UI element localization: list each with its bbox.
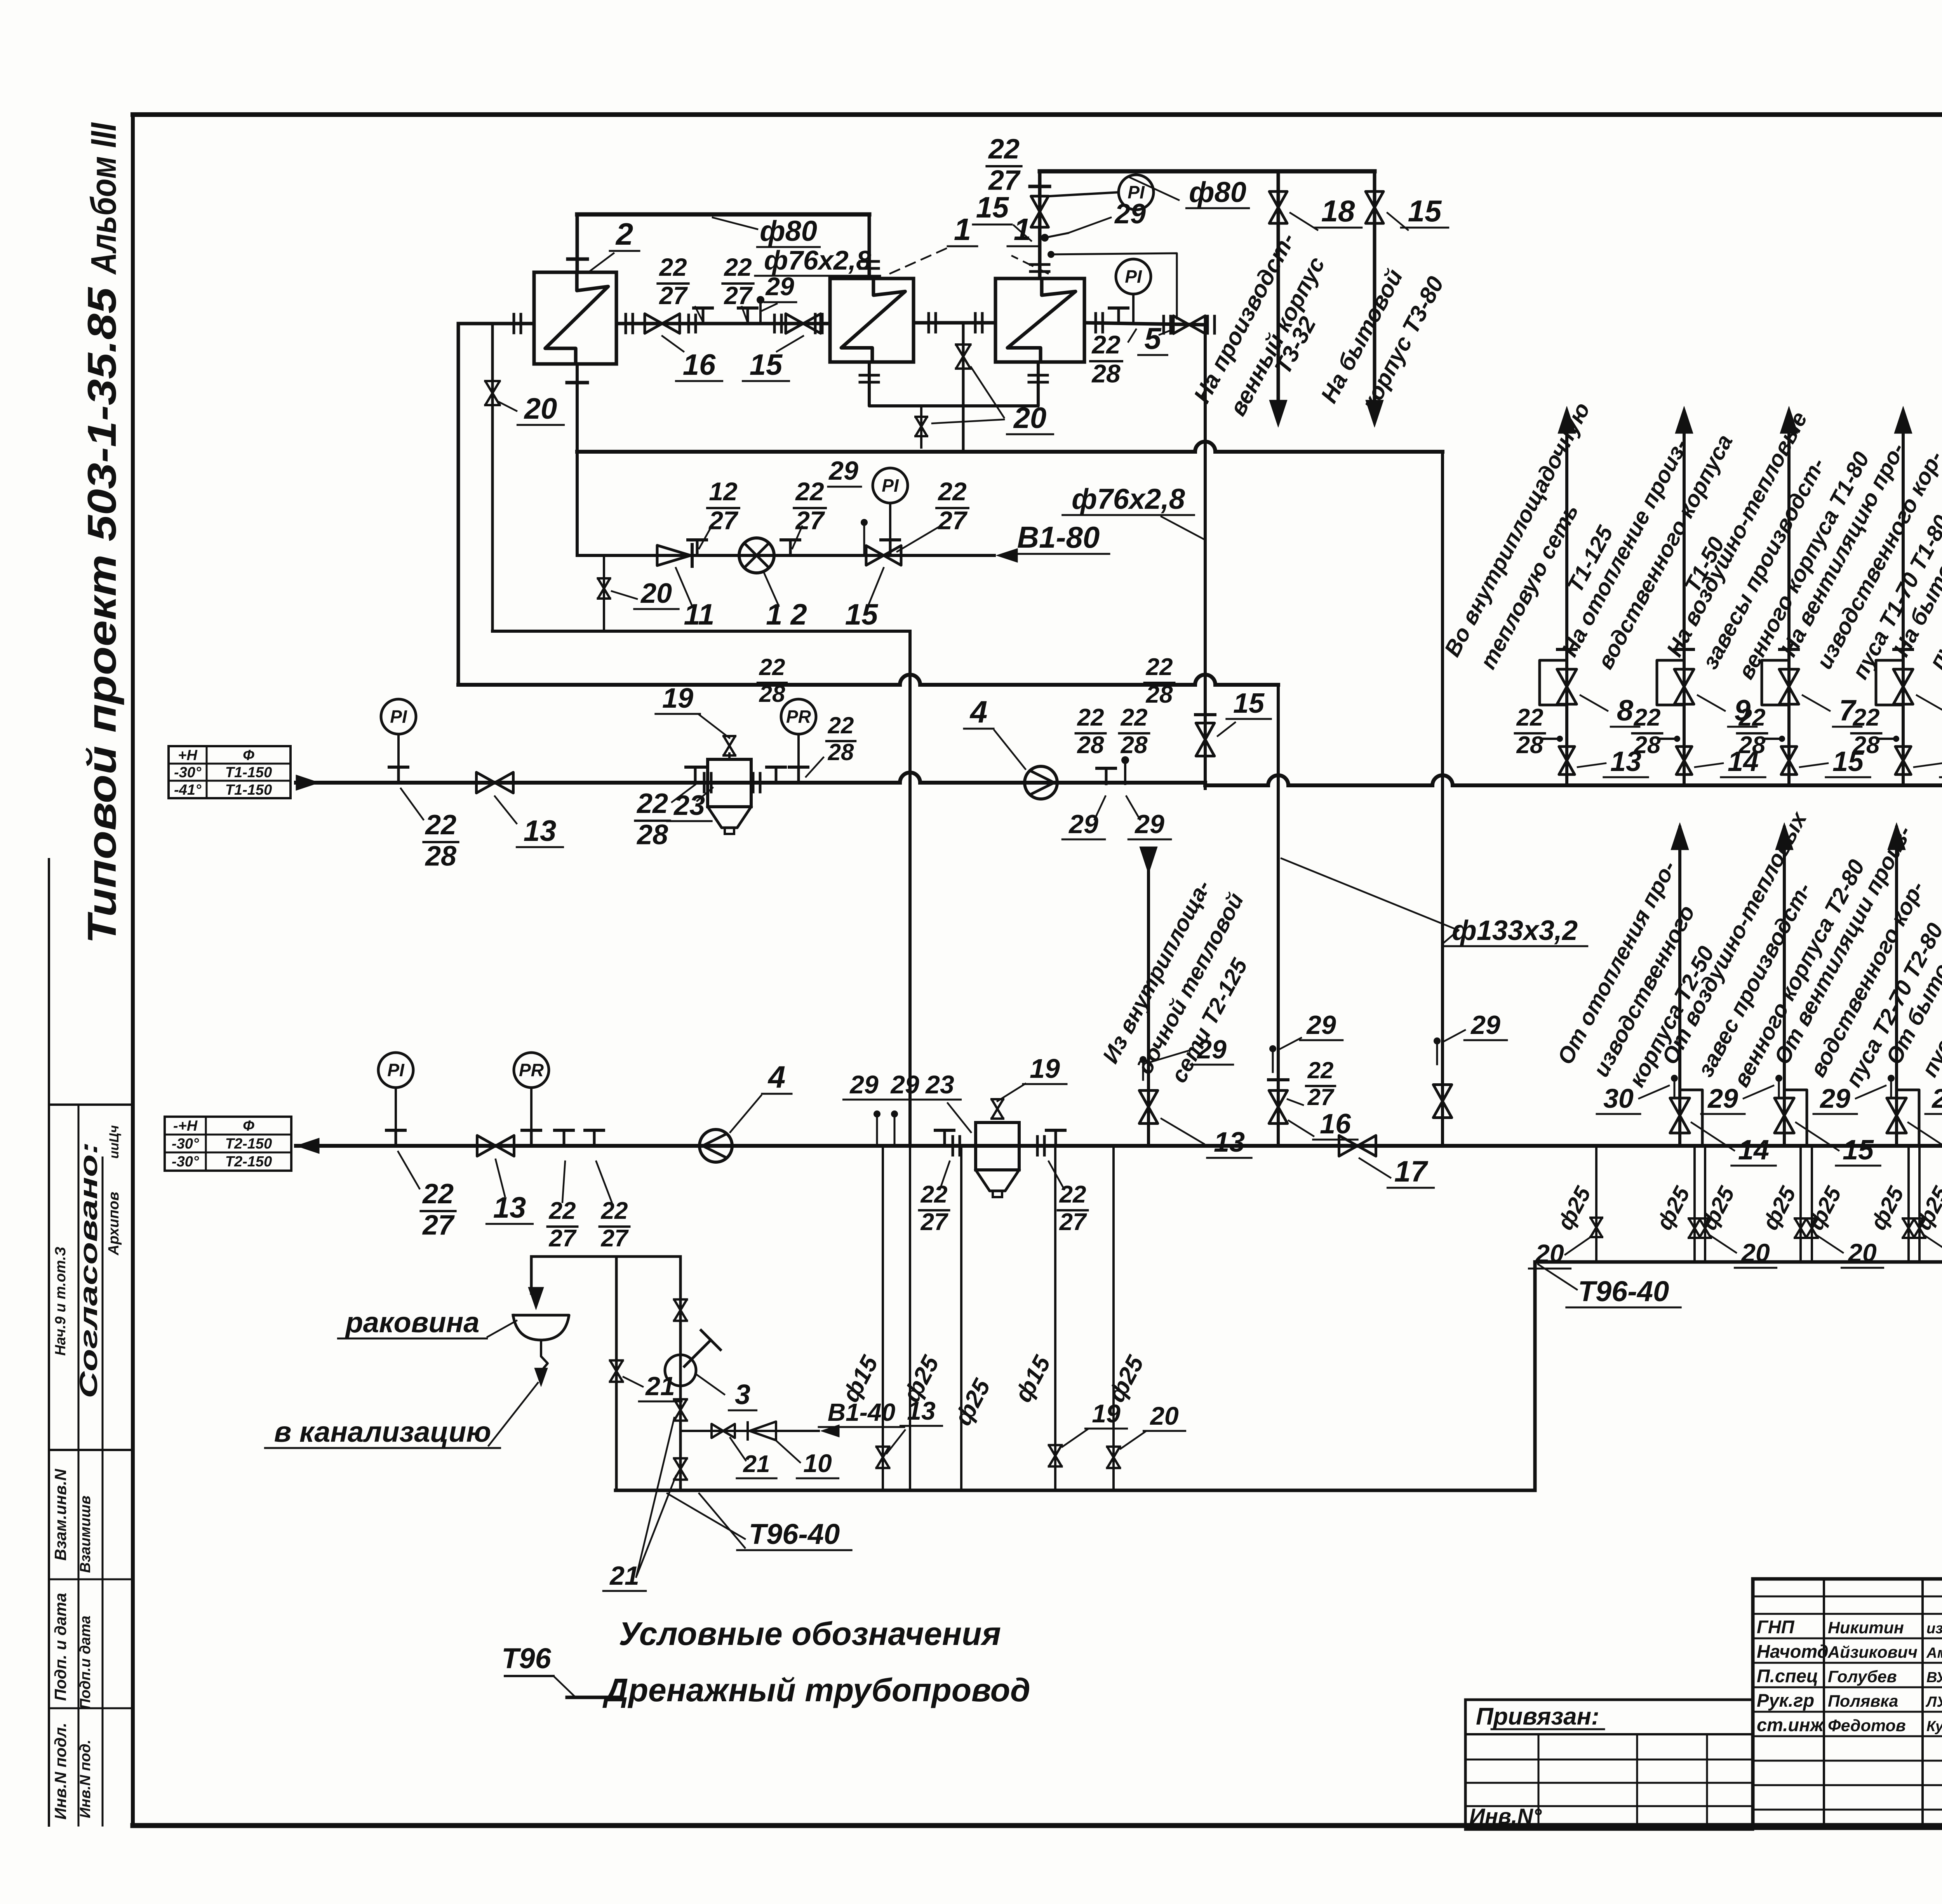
svg-text:22: 22 <box>759 654 785 680</box>
svg-text:Взаимишв: Взаимишв <box>77 1495 94 1573</box>
svg-text:Привязан:: Привязан: <box>1476 1703 1599 1730</box>
pipe y1625 drain header <box>492 630 910 633</box>
svg-text:PI: PI <box>882 475 899 496</box>
svg-text:29: 29 <box>1707 1083 1738 1114</box>
svg-text:Т2-150: Т2-150 <box>225 1136 272 1152</box>
valve 18 on T3-32 <box>1269 191 1287 223</box>
flange hx1b top <box>1030 263 1049 266</box>
flange sep2 left <box>952 1136 954 1155</box>
label 15 T3 <box>1387 213 1408 230</box>
separator 23 on T2 <box>976 1123 1019 1170</box>
svg-text:22: 22 <box>1146 654 1173 680</box>
valve 13 on T2 <box>477 1135 514 1156</box>
svg-text:Т1-150: Т1-150 <box>225 764 272 781</box>
valve 13 on T1 <box>477 772 513 793</box>
valve 15 drop to T1 <box>1196 723 1215 756</box>
drain pair x4636 <box>1799 1146 1802 1262</box>
svg-text:4: 4 <box>969 694 988 729</box>
label 13 T2 <box>496 1159 505 1196</box>
tank 3 with handle <box>665 1355 696 1386</box>
svg-text:Инв.N°: Инв.N° <box>1469 1804 1542 1828</box>
svg-text:Кузмik: Кузмik <box>1926 1718 1942 1735</box>
svg-text:27: 27 <box>937 506 968 535</box>
label 13 T1 <box>495 796 517 823</box>
svg-text:-+Н: -+Н <box>173 1118 198 1134</box>
valve 21 upper right <box>674 1300 687 1321</box>
label 7 <box>1917 695 1942 711</box>
label 19 drain <box>1062 1429 1088 1447</box>
pipe hx2-hx1a connect <box>616 322 830 325</box>
svg-text:+Н: +Н <box>178 747 198 764</box>
flange hx2 right <box>625 314 627 333</box>
svg-text:22: 22 <box>937 477 967 506</box>
svg-text:20: 20 <box>1847 1238 1877 1267</box>
riser T1 x4336 <box>1683 412 1686 785</box>
tap ticks 22/27 29 on pipe <box>702 308 705 324</box>
svg-text:22: 22 <box>828 712 854 738</box>
tap tick on hx2 top <box>568 258 587 261</box>
tap tick hx1b riser <box>1030 185 1049 188</box>
svg-text:29: 29 <box>1931 1083 1942 1114</box>
svg-text:29: 29 <box>1134 809 1164 839</box>
pipe collector y1163 <box>577 450 1195 454</box>
svg-text:Инв.N подл.: Инв.N подл. <box>51 1723 70 1820</box>
pipe hx1a top riser <box>868 214 871 278</box>
drain collector step up <box>1533 1262 1537 1490</box>
svg-text:PI: PI <box>1125 266 1142 287</box>
label 21 left <box>623 1377 643 1387</box>
svg-text:Начотд: Начотд <box>1757 1641 1829 1662</box>
svg-text:Т96: Т96 <box>501 1642 551 1674</box>
label 29 near riser <box>1068 218 1111 233</box>
svg-text:1 2: 1 2 <box>766 598 807 631</box>
svg-text:29: 29 <box>1114 198 1146 230</box>
svg-text:Голубев: Голубев <box>1828 1667 1897 1686</box>
riser T1 x4606 <box>1787 412 1791 785</box>
valve 20 branch from left pipe <box>491 324 494 631</box>
riser x3714 down <box>1441 452 1444 1146</box>
svg-text:19: 19 <box>1030 1053 1060 1084</box>
valve 21 on B1-40 <box>712 1424 735 1438</box>
svg-text:29: 29 <box>1819 1083 1850 1114</box>
valve 15 on B1-80 <box>866 546 901 565</box>
gauge PI at hx1b outlet <box>1116 259 1151 294</box>
check valve 11 <box>657 545 691 566</box>
tick 22 on riser 7 <box>1878 738 1895 740</box>
heat exchanger 2 <box>534 272 616 364</box>
svg-text:22: 22 <box>724 253 752 281</box>
label 29 x3714 <box>1443 1030 1465 1042</box>
svg-text:Т1-150: Т1-150 <box>225 782 272 798</box>
svg-text:Полявка: Полявка <box>1828 1692 1898 1711</box>
bypass loop right 4883 <box>1897 1090 1919 1146</box>
flange hx1a top <box>860 260 879 263</box>
svg-text:13: 13 <box>1214 1127 1245 1158</box>
svg-text:-41°: -41° <box>174 782 202 798</box>
label 1 left <box>889 248 948 274</box>
riser T2 x4594 <box>1783 827 1786 1146</box>
tick 22/28 on drop <box>1195 713 1215 716</box>
svg-text:22: 22 <box>1091 330 1121 359</box>
svg-text:5: 5 <box>1144 321 1162 355</box>
riser T2 x4883 <box>1895 827 1898 1146</box>
svg-text:Федотов: Федотов <box>1828 1716 1906 1735</box>
riser T1 x4034 <box>1565 412 1568 785</box>
label 15 B1 <box>868 568 884 606</box>
svg-text:PI: PI <box>387 1060 405 1080</box>
label f76x2.8 right <box>1161 517 1205 540</box>
bypass loop right 4325 <box>1680 1090 1702 1146</box>
valve 16 after hx2 <box>645 314 680 333</box>
thermometer 30 on T2 riser <box>1671 1075 1678 1082</box>
svg-text:27: 27 <box>601 1225 629 1252</box>
svg-text:4: 4 <box>767 1060 786 1094</box>
svg-text:1: 1 <box>1014 212 1031 247</box>
tap tick mid <box>789 540 792 555</box>
svg-text:27: 27 <box>708 506 739 535</box>
pipe hx2 top riser <box>576 214 579 272</box>
svg-text:28: 28 <box>1077 732 1104 759</box>
svg-text:ф80: ф80 <box>1189 176 1246 208</box>
svg-text:Архипов: Архипов <box>106 1192 122 1255</box>
bypass loop at T1 riser 7 <box>1762 660 1789 705</box>
svg-text:ЛУс: ЛУс <box>1925 1694 1942 1710</box>
arrow T2 outlet <box>296 1138 319 1154</box>
label f80 right <box>1128 177 1179 200</box>
valve 13 lower on riser <box>1559 747 1575 774</box>
tap tick after sep2 <box>1055 1130 1057 1146</box>
heat exchanger 1 (right) <box>995 278 1084 362</box>
svg-text:20: 20 <box>1535 1239 1564 1268</box>
svg-text:ф76х2,8: ф76х2,8 <box>764 245 871 275</box>
label 11 <box>676 568 692 606</box>
svg-text:15: 15 <box>1233 688 1265 719</box>
svg-text:27: 27 <box>659 282 688 310</box>
svg-text:23: 23 <box>673 790 705 821</box>
svg-text:21: 21 <box>645 1371 675 1401</box>
drain f25 x2475 <box>960 1146 962 1490</box>
pipe hx1b outlet <box>1084 323 1205 325</box>
svg-text:Взам.инв.N: Взам.инв.N <box>51 1468 70 1561</box>
label 20 drain <box>612 591 637 599</box>
svg-text:28: 28 <box>425 841 456 872</box>
label 7 <box>1803 695 1830 711</box>
valve 8 on riser <box>1557 669 1577 704</box>
pipe f80 top right header <box>1040 169 1375 174</box>
svg-text:3: 3 <box>735 1379 750 1410</box>
gauge PR on T2 <box>514 1053 549 1088</box>
flange sep2 right <box>1036 1136 1039 1155</box>
svg-text:Т96-40: Т96-40 <box>749 1518 840 1550</box>
arrow B1-80 label <box>996 548 1018 562</box>
label 15 before hx1a <box>777 336 803 352</box>
svg-text:2: 2 <box>615 217 633 251</box>
svg-text:27: 27 <box>921 1209 948 1236</box>
svg-text:Подп.и дата: Подп.и дата <box>77 1615 94 1709</box>
svg-text:29: 29 <box>1196 1035 1227 1064</box>
svg-text:22: 22 <box>659 253 687 281</box>
label f80 <box>713 218 757 229</box>
drain f15 x2273 <box>882 1146 884 1490</box>
svg-text:22: 22 <box>1634 704 1661 731</box>
valve on T2 riser 4883 <box>1887 1098 1906 1133</box>
label 4 on T2 <box>730 1095 761 1132</box>
left margin vertical rule <box>48 859 50 1826</box>
valve 15 lower on riser <box>1781 747 1797 774</box>
flange mid right <box>974 313 977 332</box>
label 18 <box>1290 213 1317 230</box>
svg-text:29: 29 <box>765 272 794 301</box>
valve 15 on hx1b riser <box>1031 196 1049 227</box>
svg-text:28: 28 <box>1516 732 1544 759</box>
gauge PI on T2 <box>378 1053 413 1088</box>
svg-text:21: 21 <box>743 1451 770 1478</box>
svg-text:Ампр: Ампр <box>1926 1645 1942 1661</box>
flange separator left <box>703 773 706 792</box>
svg-text:в канализацию: в канализацию <box>274 1416 491 1448</box>
riser T3-32 <box>1277 171 1280 419</box>
svg-text:30: 30 <box>1603 1083 1634 1114</box>
drain riser between hx <box>962 323 965 452</box>
svg-text:Айзикович: Айзикович <box>1827 1643 1918 1662</box>
svg-text:Согласовано:: Согласовано: <box>75 1142 103 1398</box>
heat exchanger 1 (left) <box>830 278 914 362</box>
arrow B1-40 <box>821 1425 839 1437</box>
riser from external net T2-125 <box>1147 851 1150 1146</box>
label 20 mid <box>971 367 1004 418</box>
tap tick below hx2 <box>567 381 587 385</box>
svg-text:27: 27 <box>1059 1209 1087 1236</box>
tap ticks after pump T1 <box>1105 768 1108 784</box>
svg-text:ГНП: ГНП <box>1757 1617 1795 1637</box>
svg-text:22: 22 <box>636 788 668 819</box>
drain f25 x2343 continues <box>909 1146 911 1490</box>
svg-text:Т2-150: Т2-150 <box>225 1154 272 1170</box>
svg-text:22: 22 <box>1738 704 1766 731</box>
sink right drop <box>679 1257 682 1490</box>
svg-text:-30°: -30° <box>172 1154 199 1170</box>
label 12 <box>763 571 779 606</box>
label T96-40 right <box>1538 1264 1577 1290</box>
bypass loop at T1 riser 8 <box>1540 660 1567 705</box>
valve 5 <box>1173 316 1205 334</box>
svg-text:22: 22 <box>1853 704 1880 731</box>
tap tick on riser 7 <box>1894 648 1912 651</box>
valve 17 on T2 <box>1339 1135 1376 1156</box>
svg-text:Альбом III: Альбом III <box>84 122 124 275</box>
pipe hx1a-hx1b connect <box>914 321 995 325</box>
svg-text:Никитин: Никитин <box>1828 1619 1904 1637</box>
svg-text:-30°: -30° <box>174 764 202 781</box>
pipe f80 hx2-hx1a top <box>577 212 869 217</box>
svg-text:22: 22 <box>1059 1181 1086 1208</box>
label 14 on T2 riser <box>1691 1123 1734 1150</box>
svg-text:Подп. и дата: Подп. и дата <box>51 1593 70 1701</box>
tap tick on riser 7 <box>1780 648 1798 651</box>
drain pair x4914 <box>1907 1146 1910 1262</box>
hx2 bottom riser <box>576 364 579 555</box>
riser x2343 down <box>908 631 912 1146</box>
svg-text:23: 23 <box>925 1070 954 1099</box>
bypass loop at T1 riser 7 <box>1876 660 1903 705</box>
label 14 <box>1695 763 1723 767</box>
impulse line to valve 5 area <box>1049 253 1177 318</box>
valve 14 lower on riser <box>1676 747 1692 774</box>
sheet frame border <box>133 112 1942 117</box>
pump 4 on T1 <box>1025 766 1057 799</box>
sink bowl <box>513 1315 569 1340</box>
pipe T1 main <box>296 781 900 785</box>
svg-text:16: 16 <box>1320 1109 1351 1140</box>
drain collector T96-40 right <box>1535 1260 1942 1264</box>
svg-text:ст.инж: ст.инж <box>1757 1714 1824 1735</box>
svg-text:29: 29 <box>828 456 858 486</box>
label 20 drain <box>1121 1431 1146 1449</box>
thermometer on ext riser <box>1140 1056 1147 1063</box>
flange hx1a left <box>814 314 817 333</box>
valve 19 on separator top <box>724 736 735 755</box>
svg-text:ииЦч: ииЦч <box>107 1125 122 1159</box>
arrow down T3-32 <box>1269 400 1287 427</box>
labels 22/28 at T1 PI <box>401 788 423 820</box>
drain valve 20 from B1-80 <box>603 555 605 631</box>
svg-text:27: 27 <box>724 282 753 310</box>
svg-text:28: 28 <box>1634 732 1661 759</box>
thermo and PI on B1-80 <box>861 519 868 526</box>
svg-text:15: 15 <box>845 598 879 631</box>
svg-text:-30°: -30° <box>172 1136 199 1152</box>
valve 15 before hx1a <box>786 314 821 333</box>
label 15 <box>1800 763 1828 767</box>
valve 7 on riser <box>1779 669 1799 704</box>
pipe B1-40 <box>680 1430 819 1432</box>
svg-text:Нач.9 и т.от.З: Нач.9 и т.от.З <box>52 1247 69 1356</box>
valves 21 lower right <box>674 1399 687 1421</box>
title block signature rows <box>1753 1596 1942 1598</box>
bypass loop right 4594 <box>1784 1090 1807 1146</box>
valve on T2 riser 4325 <box>1670 1098 1690 1133</box>
thermometer on x3714 <box>1434 1037 1441 1044</box>
svg-text:29: 29 <box>1306 1010 1336 1040</box>
svg-text:Рук.гр: Рук.гр <box>1757 1690 1814 1711</box>
svg-text:22: 22 <box>1121 704 1148 731</box>
svg-text:28: 28 <box>1121 732 1148 759</box>
svg-text:22: 22 <box>422 1178 454 1210</box>
svg-text:20: 20 <box>1740 1238 1770 1267</box>
label 15 on T2 riser <box>1796 1123 1839 1150</box>
thermometer 29 on T2 riser <box>1888 1075 1895 1082</box>
sink left drop <box>615 1257 618 1490</box>
title block signature columns <box>1823 1579 1825 1826</box>
sink header pipe <box>531 1255 680 1258</box>
valve 16 x3291 <box>1269 1091 1288 1124</box>
svg-text:29: 29 <box>890 1070 919 1099</box>
tick 22 on riser 8 <box>1542 738 1558 740</box>
flange mid left <box>927 313 930 332</box>
pipe hx1b top riser <box>1038 171 1042 278</box>
elbow to T1 drop <box>1204 325 1207 788</box>
svg-text:изм5=4: изм5=4 <box>1926 1620 1942 1637</box>
label 20 left <box>499 402 517 411</box>
gauge PR on T1 <box>781 699 816 734</box>
thermo pair before separator T2 <box>874 1110 881 1117</box>
valve 15 on T3-80 <box>1366 191 1383 223</box>
svg-text:Условные обозначения: Условные обозначения <box>619 1615 1001 1652</box>
heat exchanger 2 left pipe <box>458 322 534 325</box>
svg-text:27: 27 <box>422 1210 455 1241</box>
tap ticks at T2 <box>563 1130 566 1146</box>
svg-text:Инв.N под.: Инв.N под. <box>77 1740 94 1818</box>
valve 20 on mid drain <box>956 345 970 369</box>
svg-text:19: 19 <box>1092 1399 1121 1428</box>
svg-text:12: 12 <box>709 477 738 506</box>
label f133x3.2 <box>1281 858 1458 930</box>
svg-text:22: 22 <box>1077 704 1104 731</box>
flange hx2 left <box>513 314 515 333</box>
svg-text:ф76х2,8: ф76х2,8 <box>1072 483 1185 515</box>
drain collector T96-40 left <box>616 1489 1535 1492</box>
svg-text:ф133х3,2: ф133х3,2 <box>1452 915 1578 946</box>
valve 19 on sep2 top <box>992 1099 1003 1119</box>
elevator 12 <box>739 538 774 573</box>
svg-text:Типовой проект 503-1-35.85: Типовой проект 503-1-35.85 <box>80 286 125 944</box>
valve 21 left drop <box>610 1361 623 1382</box>
tap tick x3291 <box>1269 1078 1288 1081</box>
label 15 on T2 riser <box>1908 1123 1942 1150</box>
svg-text:1: 1 <box>954 212 971 247</box>
flange separator right <box>752 773 755 792</box>
riser x3291 down <box>1277 685 1280 1146</box>
svg-text:ф80: ф80 <box>760 215 817 247</box>
svg-text:28: 28 <box>759 681 785 707</box>
svg-text:28: 28 <box>828 739 854 765</box>
labels 22/27 16 <box>1288 1099 1303 1105</box>
label 2 <box>590 253 614 271</box>
svg-text:Ф: Ф <box>243 747 254 764</box>
riser T1 x4900 <box>1902 412 1905 785</box>
tap tick 22/28 outlet <box>1117 308 1120 324</box>
svg-text:28: 28 <box>1738 732 1766 759</box>
svg-text:Дренажный трубопровод: Дренажный трубопровод <box>602 1672 1030 1708</box>
svg-text:22: 22 <box>988 134 1020 165</box>
tap tick before sep2 <box>943 1130 946 1146</box>
arrow down T3-80 <box>1366 400 1383 427</box>
svg-text:10: 10 <box>803 1449 832 1478</box>
label 1 right <box>1011 256 1049 274</box>
svg-text:29: 29 <box>1470 1010 1500 1040</box>
drain pair x4363 <box>1693 1146 1696 1262</box>
svg-text:15: 15 <box>1408 194 1442 228</box>
svg-text:22: 22 <box>795 477 824 506</box>
valve on T2 riser 4594 <box>1775 1098 1794 1133</box>
svg-text:29: 29 <box>849 1070 879 1099</box>
label 17 <box>1359 1158 1390 1178</box>
svg-text:В1-80: В1-80 <box>1017 520 1100 554</box>
drain f15 x2717 <box>1054 1146 1056 1490</box>
thermometer on x3291 <box>1269 1045 1276 1052</box>
label 20 pair <box>1710 1235 1736 1253</box>
valve 15 lower on riser <box>1895 747 1911 774</box>
flange hx1a bottom <box>860 374 879 377</box>
label 15 <box>1914 763 1942 767</box>
sink drain stub <box>541 1340 548 1371</box>
bypass loop at T1 riser 9 <box>1657 660 1684 705</box>
svg-text:11: 11 <box>684 598 715 631</box>
label 20 pair <box>1924 1235 1942 1253</box>
svg-text:15: 15 <box>976 191 1009 224</box>
labels 21 10 <box>730 1438 746 1460</box>
svg-text:18: 18 <box>1321 194 1355 228</box>
